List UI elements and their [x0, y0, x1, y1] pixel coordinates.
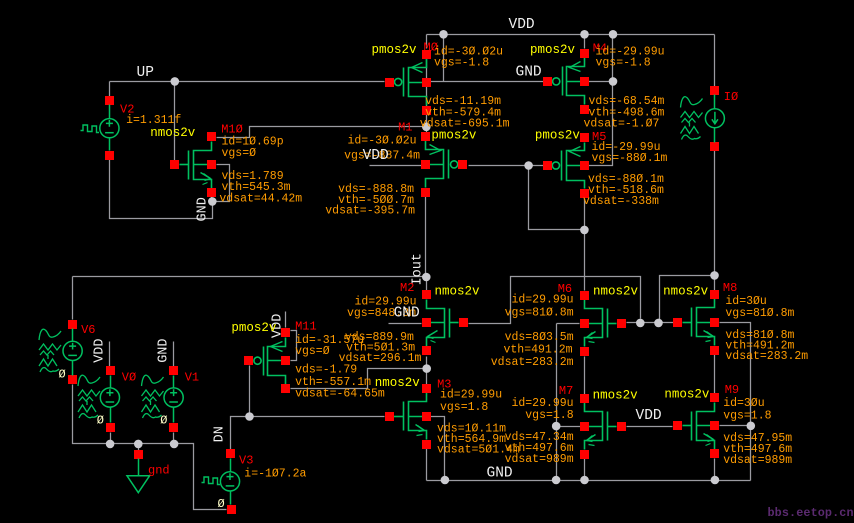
wire UP net — [110, 81, 385, 83]
svg-text:nmos2v: nmos2v — [593, 389, 639, 403]
wire Iout node to M2 drain — [426, 277, 428, 291]
annotation V3 value — [244, 467, 306, 480]
svg-text:vgs=1.8: vgs=1.8 — [525, 409, 573, 422]
source I0 current — [705, 109, 724, 128]
wire M6 gate to M8 gate — [627, 322, 674, 324]
transistor M4 pmos2v — [543, 49, 589, 114]
wire M2 gate route to mirror gates — [469, 277, 641, 324]
wire M7 source to GND rail — [584, 459, 586, 481]
junction M3 bulk / GND rail — [441, 476, 450, 485]
junction M4 bulk / bulk rail — [609, 77, 618, 86]
junction DN net — [245, 412, 254, 421]
annotation V2 value — [126, 114, 181, 127]
svg-text:id=-3Ø.Ø2u: id=-3Ø.Ø2u — [347, 134, 416, 147]
svg-text:VDD: VDD — [363, 148, 389, 164]
svg-text:vdsat=-1.Ø7: vdsat=-1.Ø7 — [584, 117, 660, 130]
wire M4 drain to VDD rail — [584, 35, 586, 49]
svg-text:vdsat=989m: vdsat=989m — [723, 454, 792, 467]
junction V0 / ground bus — [106, 440, 115, 449]
svg-text:vdsat=-695.1m: vdsat=-695.1m — [420, 117, 510, 130]
wire GND-label net M0-bulk to M4 gate — [431, 81, 544, 83]
wire M10 drain jog to M0/M1 node — [217, 127, 423, 138]
transistor M2 nmos2v — [422, 290, 468, 355]
wire M3 bulk to GND rail — [431, 417, 445, 481]
svg-text:vth=491.2m: vth=491.2m — [503, 344, 572, 357]
svg-text:vgs=-88Ø.1m: vgs=-88Ø.1m — [592, 152, 668, 165]
wire M5 drain to M6 drain column — [584, 199, 586, 291]
svg-text:gnd: gnd — [148, 464, 170, 478]
svg-text:id=29.99u: id=29.99u — [511, 294, 573, 307]
svg-text:nmos2v: nmos2v — [593, 285, 639, 299]
source V2 pulse — [100, 119, 119, 138]
wire I0 bottom to M8 drain — [714, 151, 716, 291]
wire I0 top to VDD rail — [714, 35, 716, 87]
svg-text:vgs=81Ø.8m: vgs=81Ø.8m — [725, 307, 794, 320]
junction M5 drain / column — [580, 226, 589, 235]
junction M10 source / V2 / bulk tie — [208, 197, 217, 206]
svg-text:id=3Øu: id=3Øu — [723, 397, 764, 410]
svg-text:vgs=Ø: vgs=Ø — [295, 345, 330, 358]
svg-text:VØ: VØ — [122, 371, 136, 385]
svg-text:vds=-1.79: vds=-1.79 — [295, 364, 357, 377]
wire M11 VDD stub — [285, 312, 287, 328]
wire M10 source to node — [211, 197, 213, 202]
svg-text:M9: M9 — [725, 383, 739, 397]
annotation M8 params — [725, 295, 808, 363]
svg-text:M1: M1 — [398, 121, 412, 135]
wire bulk riser top to M6 bulk — [557, 323, 580, 325]
wire M9 source to GND rail — [714, 459, 716, 481]
svg-text:i=-1Ø7.2a: i=-1Ø7.2a — [244, 467, 306, 480]
junction M7 source / GND rail — [580, 476, 589, 485]
svg-text:GND: GND — [394, 305, 420, 321]
wire VDD rail — [427, 34, 715, 36]
transistor M9 nmos2v — [673, 393, 719, 458]
annotation M10 params — [219, 135, 302, 205]
svg-text:vgs=1.8: vgs=1.8 — [723, 409, 771, 422]
svg-text:vdsat=-338m: vdsat=-338m — [583, 195, 659, 208]
wire M6 source to M7 drain column — [584, 357, 586, 395]
svg-text:V3: V3 — [239, 454, 253, 468]
svg-text:vgs=-1.8: vgs=-1.8 — [596, 57, 651, 70]
wire M0 drain - M1 source column — [426, 59, 428, 134]
wire M7 gate to M9 gate (VDD label) — [627, 426, 673, 428]
svg-text:UP: UP — [137, 65, 154, 81]
svg-text:VDD: VDD — [636, 408, 662, 424]
svg-text:pmos2v: pmos2v — [535, 129, 581, 143]
svg-text:vdsat=989m: vdsat=989m — [505, 453, 574, 466]
svg-text:nmos2v: nmos2v — [150, 126, 196, 140]
svg-text:nmos2v: nmos2v — [664, 388, 710, 402]
svg-text:vds=8Ø3.5m: vds=8Ø3.5m — [505, 331, 574, 344]
transistor M1 pmos2v — [421, 132, 467, 197]
svg-text:M8: M8 — [723, 281, 737, 295]
source V3 pulse — [220, 472, 239, 491]
junction M7 bulk riser — [552, 422, 561, 431]
transistor M8 nmos2v — [673, 290, 719, 355]
wire V1 minus to bus — [173, 433, 175, 444]
svg-text:nmos2v: nmos2v — [663, 285, 709, 299]
wire V0 minus to bus — [110, 433, 112, 444]
wire DN to M11 gate — [249, 366, 251, 417]
junction M2-M3 / M11 drain — [422, 364, 431, 373]
wire M3 source to GND rail — [426, 449, 428, 481]
svg-text:Ø: Ø — [218, 497, 225, 511]
wire M7 bulk to GND rail — [557, 324, 581, 481]
source V1 dc — [164, 388, 183, 407]
transistor M0 pmos2v — [385, 50, 431, 115]
svg-text:bbs.eetop.cn: bbs.eetop.cn — [768, 506, 854, 520]
wire V0 VDD stub — [109, 342, 111, 367]
svg-text:pmos2v: pmos2v — [530, 43, 576, 57]
svg-text:V1: V1 — [185, 371, 199, 385]
annotation M1 params — [325, 134, 420, 217]
svg-text:GND: GND — [157, 338, 172, 362]
svg-text:pmos2v: pmos2v — [431, 129, 477, 143]
wire M2 bulk GND stub — [389, 323, 422, 325]
source V6 noise — [63, 341, 82, 360]
annotation M11 params — [295, 334, 385, 401]
wire ground bus V6-V0-V1-V3 — [73, 385, 227, 510]
svg-text:M11: M11 — [295, 320, 317, 334]
wire M4 bulk to x=613 — [589, 81, 613, 83]
svg-text:i=1.311f: i=1.311f — [126, 114, 181, 127]
transistor M7 nmos2v — [580, 394, 626, 459]
svg-text:Ø: Ø — [59, 368, 66, 382]
junction mirror gate wire B — [654, 319, 663, 328]
junction VDD rail / bulk rail — [609, 30, 618, 39]
svg-text:vgs=81Ø.8m: vgs=81Ø.8m — [505, 307, 574, 320]
svg-text:GND: GND — [516, 65, 542, 81]
junction VDD rail / bulk tap — [439, 30, 448, 39]
svg-text:GND: GND — [487, 466, 513, 482]
wire bulk rail x=613 — [589, 35, 613, 166]
ground symbol gnd — [134, 450, 143, 459]
svg-text:vgs=1.8: vgs=1.8 — [440, 401, 488, 414]
svg-text:Ø: Ø — [97, 414, 104, 428]
junction M1-M5 gate / jog — [524, 161, 533, 170]
svg-text:nmos2v: nmos2v — [435, 285, 481, 299]
svg-text:vdsat=283.2m: vdsat=283.2m — [725, 350, 808, 363]
svg-text:V6: V6 — [81, 323, 95, 337]
svg-text:vdsat=-395.7m: vdsat=-395.7m — [325, 204, 415, 217]
svg-text:vgs=-1.8: vgs=-1.8 — [434, 57, 489, 70]
svg-text:vdsat=-64.65m: vdsat=-64.65m — [295, 388, 385, 401]
wire V1 GND stub — [173, 342, 175, 367]
wire V2 minus loop to M10 source — [110, 160, 213, 219]
junction right rail / M8 gate tap — [710, 271, 719, 280]
annotation M2 params — [339, 296, 422, 365]
wire M9 bulk to right rail — [720, 425, 751, 427]
annotation M0 params — [420, 46, 510, 131]
wire Iout to V6 — [72, 277, 74, 320]
wire UP to M10 gate — [174, 82, 176, 161]
transistor M10 nmos2v — [170, 132, 216, 197]
source V0 dc — [100, 388, 119, 407]
wire M0 drain to VDD rail — [426, 35, 428, 49]
svg-text:Ø: Ø — [160, 414, 167, 428]
annotation M4 params — [584, 46, 665, 131]
wire M11 bulk tie to source — [291, 331, 297, 361]
transistor M6 nmos2v — [580, 291, 626, 356]
wire right-rail tap to gate wire — [660, 276, 715, 323]
transistor M5 pmos2v — [543, 133, 589, 198]
wire M1 gate to M5 gate — [469, 165, 545, 167]
transistor M3 nmos2v — [385, 384, 431, 449]
svg-text:DN: DN — [213, 426, 228, 442]
svg-text:pmos2v: pmos2v — [372, 43, 418, 57]
transistor M11 pmos2v — [244, 328, 290, 393]
junction M9 source / GND rail — [711, 476, 720, 485]
wire M1/M5 gate jog down to M5 drain — [529, 166, 585, 230]
annotation M9 params — [723, 397, 792, 467]
svg-text:GND: GND — [196, 197, 211, 221]
svg-text:vdsat=283.2m: vdsat=283.2m — [491, 356, 574, 369]
wire gnd symbol to bus — [138, 444, 140, 451]
junction mirror gate wire A — [636, 319, 645, 328]
wire DN net V3 to M3 gate — [231, 417, 385, 450]
wire GND rail bottom — [427, 480, 751, 482]
wire VDD tap to bulk/GND-label net — [443, 35, 445, 82]
svg-text:vdsat=44.42m: vdsat=44.42m — [219, 192, 302, 205]
annotation M5 params — [583, 141, 668, 208]
svg-text:vgs=Ø: vgs=Ø — [222, 147, 257, 160]
junction VDD rail / M4 drain — [580, 30, 589, 39]
wire M8 bulk down right rail — [720, 323, 751, 481]
annotation M6 params — [491, 294, 574, 369]
wire M2 source to M3 drain column — [426, 357, 428, 385]
svg-text:IØ: IØ — [724, 90, 738, 104]
svg-text:VDD: VDD — [509, 17, 535, 33]
wire M10 bulk tie — [217, 165, 230, 202]
wire M1 bulk VDD stub — [370, 165, 422, 167]
svg-text:VDD: VDD — [93, 338, 108, 362]
svg-text:M2: M2 — [400, 281, 414, 295]
junction gnd / ground bus — [134, 440, 143, 449]
wire M11 drain to M2/M3 node — [291, 369, 427, 389]
junction M0-M1 / M10 drain — [422, 123, 431, 132]
svg-text:M7: M7 — [559, 384, 573, 398]
annotation M7 params — [505, 397, 574, 466]
junction V1 / ground bus — [170, 440, 179, 449]
svg-text:pmos2v: pmos2v — [231, 321, 277, 335]
wire V2 plus to UP — [109, 82, 111, 97]
wire M8 source to M9 drain — [714, 355, 716, 394]
wire M1 drain to Iout node — [425, 197, 427, 277]
junction UP/M10-gate — [171, 77, 180, 86]
junction M9 bulk / right rail — [747, 422, 756, 431]
junction Iout node — [422, 273, 431, 282]
wire Iout horizontal — [73, 276, 427, 278]
annotation M3 params — [437, 388, 520, 456]
junction bulk riser / GND rail — [552, 476, 561, 485]
svg-text:id=29.99u: id=29.99u — [440, 388, 502, 401]
